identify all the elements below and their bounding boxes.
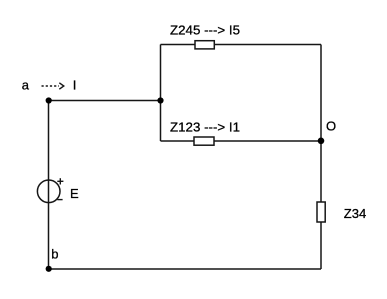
resistor Z245 — [195, 41, 214, 49]
wire branch vertical — [160, 45, 162, 142]
node b junction dot — [46, 266, 52, 272]
svg-text:Z34: Z34 — [344, 206, 367, 221]
current arrow I (dashed) — [42, 83, 64, 89]
svg-text:a: a — [22, 78, 30, 93]
wire right vertical — [320, 45, 322, 270]
wire top branch — [161, 44, 322, 46]
resistor Z34 — [317, 202, 325, 222]
svg-text:O: O — [326, 119, 336, 134]
svg-text:Z123 ---> I1: Z123 ---> I1 — [170, 119, 240, 134]
svg-text:Z245 ---> I5: Z245 ---> I5 — [170, 22, 240, 37]
wire left vertical — [48, 101, 50, 270]
minus sign of E — [57, 199, 62, 201]
svg-text:b: b — [51, 247, 58, 262]
wire middle branch — [161, 140, 322, 142]
node O junction dot — [318, 138, 325, 145]
voltage source E circle — [37, 180, 60, 203]
node a junction dot — [46, 97, 52, 103]
wire a to branch node — [49, 100, 161, 102]
branch junction dot — [157, 97, 163, 103]
plus sign of E — [57, 178, 63, 184]
svg-text:I: I — [73, 78, 77, 93]
wire bottom — [49, 268, 322, 270]
svg-text:E: E — [70, 186, 79, 201]
resistor Z123 — [194, 137, 214, 145]
